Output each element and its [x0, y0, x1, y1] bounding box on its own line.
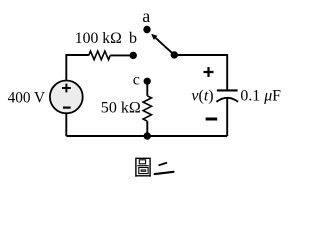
polarity plus for v(t) [204, 67, 214, 77]
svg-text:100 kΩ: 100 kΩ [75, 30, 122, 47]
wire top-right segment [174, 55, 227, 90]
node c [144, 78, 151, 85]
polarity minus for v(t) [206, 118, 218, 121]
voltage source VS 400V [50, 81, 83, 114]
svg-text:0.1 μF: 0.1 μF [240, 87, 281, 104]
wire resistor to node b [110, 54, 131, 56]
svg-text:c: c [133, 71, 140, 88]
node a [143, 26, 150, 33]
junction dot bottom [144, 132, 151, 139]
caption glyph ER (two) [155, 163, 174, 174]
caption glyph TU (figure) [135, 158, 150, 177]
wire node c to resistor [146, 81, 148, 96]
svg-text:b: b [129, 30, 137, 47]
svg-text:a: a [142, 6, 150, 26]
wire top-left segment [66, 55, 88, 81]
resistor R2 50k [143, 96, 151, 121]
wire bottom [66, 135, 227, 137]
svg-text:50 kΩ: 50 kΩ [101, 100, 141, 117]
svg-text:v(t): v(t) [191, 87, 213, 104]
switch pivot dot [171, 51, 178, 58]
node b [130, 52, 137, 59]
switch S1 arm with arrowhead [151, 34, 174, 55]
wire left-bottom segment [65, 113, 67, 136]
wire capacitor to bottom [226, 99, 228, 137]
svg-text:400 V: 400 V [8, 89, 46, 106]
resistor R1 100k [89, 51, 111, 60]
wire resistor 50k to bottom junction [146, 121, 148, 136]
capacitor C1 0.1uF [216, 90, 238, 101]
